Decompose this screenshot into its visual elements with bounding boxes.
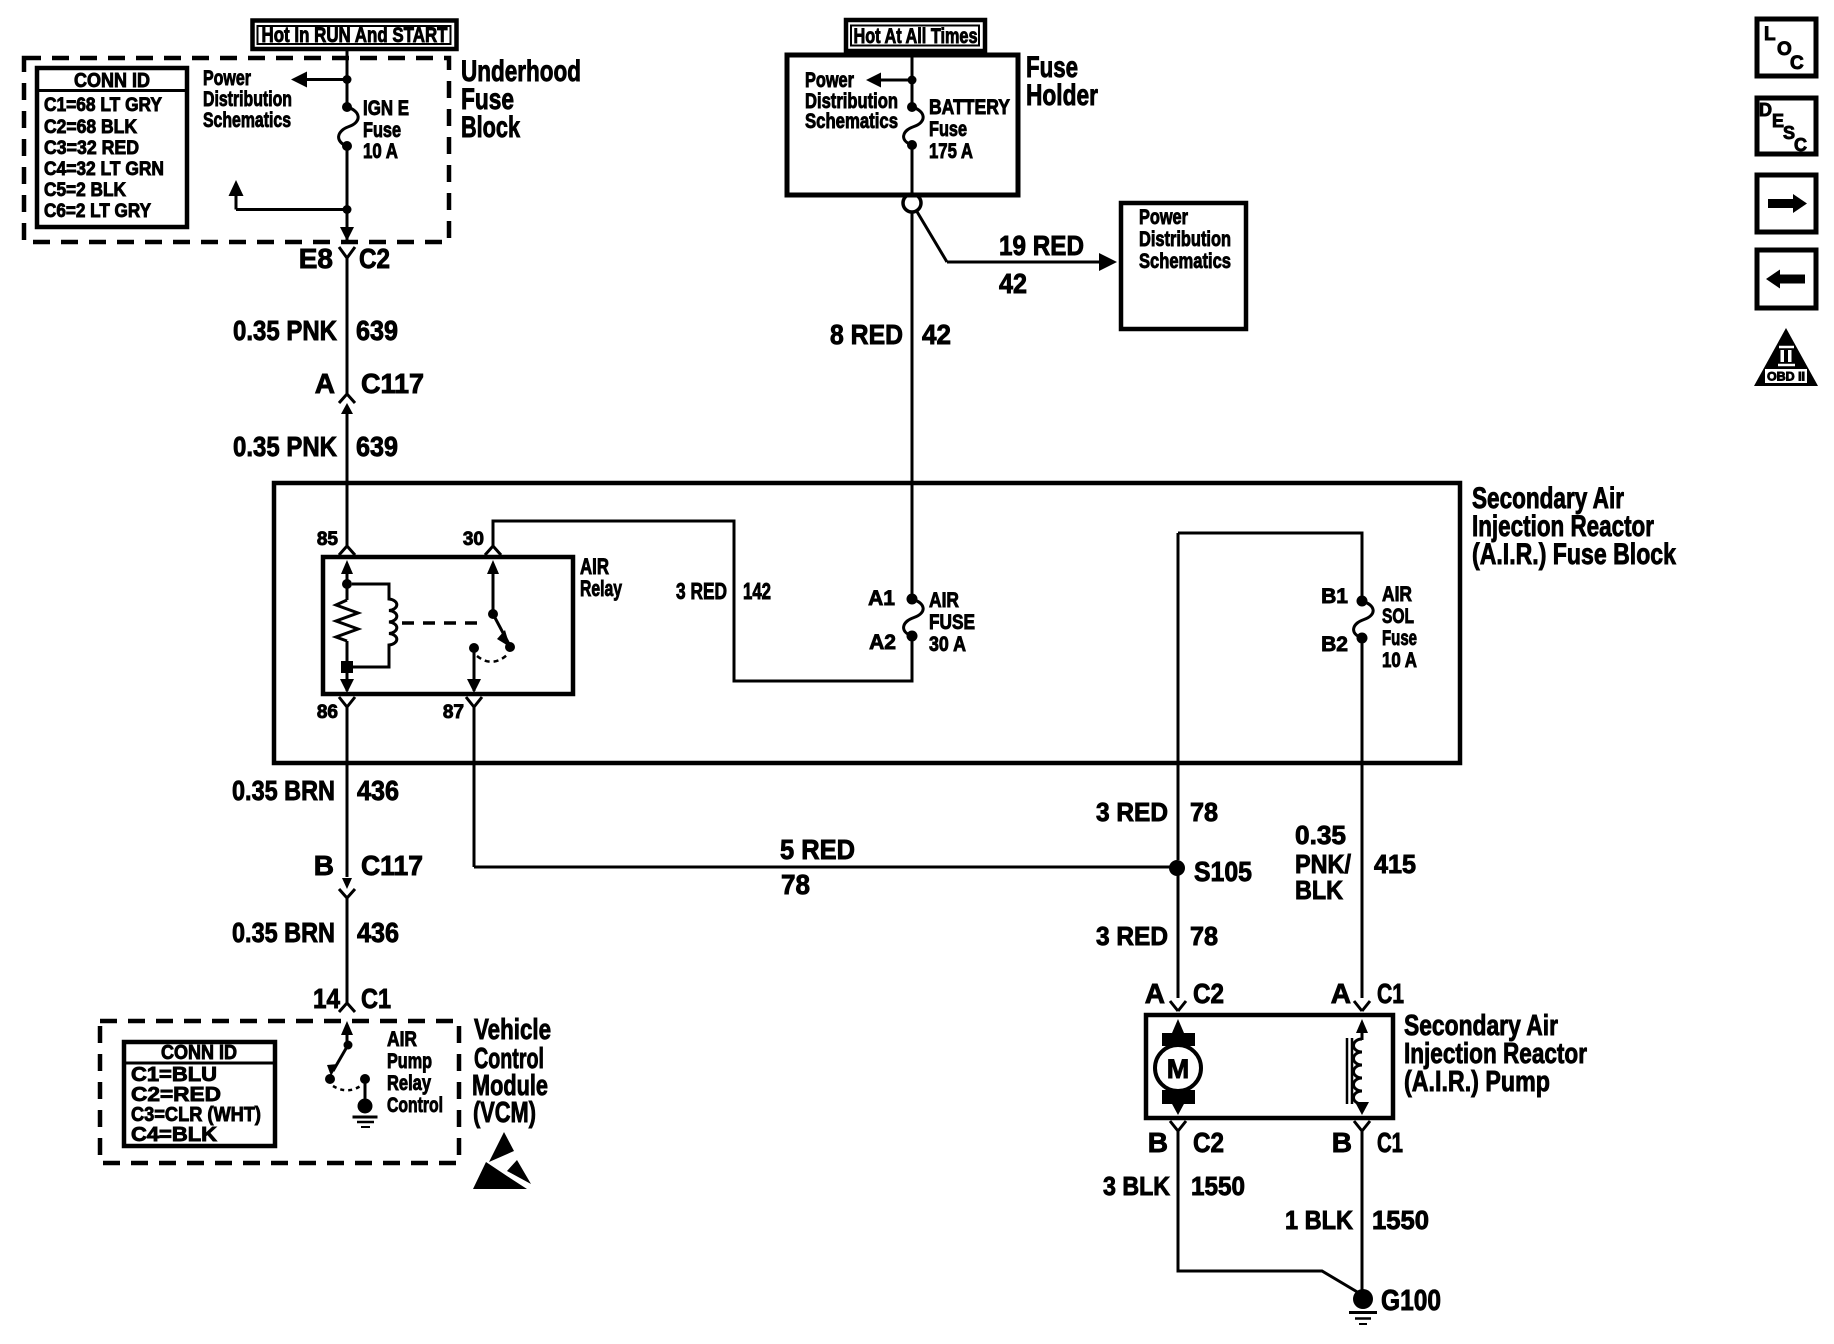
- svg-text:E8: E8: [299, 243, 333, 274]
- svg-text:D: D: [1759, 100, 1772, 120]
- svg-text:19 RED: 19 RED: [999, 230, 1084, 261]
- svg-text:Relay: Relay: [580, 576, 623, 601]
- svg-text:CONN ID: CONN ID: [161, 1042, 237, 1064]
- svg-text:Power: Power: [1139, 206, 1188, 229]
- svg-text:C3=32 RED: C3=32 RED: [44, 138, 139, 159]
- svg-text:10 A: 10 A: [363, 140, 398, 163]
- svg-text:Control: Control: [387, 1094, 443, 1117]
- svg-text:BATTERY: BATTERY: [929, 96, 1010, 119]
- svg-text:78: 78: [1190, 921, 1218, 951]
- svg-text:C6=2 LT GRY: C6=2 LT GRY: [44, 201, 151, 222]
- svg-text:C3=CLR (WHT): C3=CLR (WHT): [131, 1104, 261, 1126]
- svg-text:CONN ID: CONN ID: [74, 70, 150, 92]
- svg-text:8 RED: 8 RED: [830, 319, 903, 350]
- svg-text:1 BLK: 1 BLK: [1285, 1205, 1353, 1235]
- svg-text:78: 78: [781, 869, 810, 900]
- svg-text:C5=2 BLK: C5=2 BLK: [44, 180, 126, 201]
- svg-text:OBD II: OBD II: [1767, 370, 1805, 384]
- svg-text:C2=RED: C2=RED: [131, 1084, 221, 1106]
- svg-text:G100: G100: [1381, 1285, 1441, 1317]
- svg-text:3 RED: 3 RED: [676, 578, 727, 604]
- svg-text:C1: C1: [361, 983, 391, 1014]
- svg-text:(A.I.R.) Fuse Block: (A.I.R.) Fuse Block: [1472, 538, 1676, 571]
- svg-text:C1=68 LT GRY: C1=68 LT GRY: [44, 95, 162, 116]
- svg-text:A: A: [1331, 978, 1351, 1009]
- svg-text:Schematics: Schematics: [805, 110, 898, 133]
- svg-text:C4=BLK: C4=BLK: [131, 1124, 218, 1146]
- svg-text:42: 42: [922, 319, 951, 350]
- svg-text:0.35 PNK: 0.35 PNK: [233, 315, 337, 346]
- svg-text:3 RED: 3 RED: [1096, 797, 1168, 827]
- svg-text:A2: A2: [869, 631, 896, 654]
- svg-text:1550: 1550: [1372, 1205, 1429, 1235]
- svg-text:Hot At All Times: Hot At All Times: [854, 25, 978, 48]
- svg-text:C1: C1: [1377, 1127, 1403, 1158]
- svg-text:42: 42: [999, 268, 1027, 299]
- svg-text:0.35 PNK: 0.35 PNK: [233, 431, 337, 462]
- svg-text:Relay: Relay: [387, 1072, 431, 1095]
- svg-text:B1: B1: [1321, 585, 1348, 608]
- svg-text:B: B: [314, 850, 334, 881]
- svg-text:436: 436: [357, 917, 399, 948]
- svg-text:0.35 BRN: 0.35 BRN: [232, 775, 335, 806]
- svg-text:C2: C2: [1193, 1127, 1224, 1158]
- svg-text:3 BLK: 3 BLK: [1103, 1171, 1170, 1201]
- svg-text:436: 436: [357, 775, 399, 806]
- svg-text:C: C: [1794, 135, 1807, 155]
- svg-text:AIR: AIR: [1382, 583, 1412, 606]
- svg-text:Power: Power: [203, 67, 251, 90]
- svg-text:Holder: Holder: [1026, 79, 1098, 112]
- svg-text:(VCM): (VCM): [473, 1097, 536, 1129]
- svg-text:3 RED: 3 RED: [1096, 921, 1168, 951]
- svg-text:C1=BLU: C1=BLU: [131, 1064, 217, 1086]
- svg-text:C2=68 BLK: C2=68 BLK: [44, 117, 137, 138]
- svg-text:B2: B2: [1321, 633, 1348, 656]
- svg-text:175 A: 175 A: [929, 140, 973, 163]
- svg-text:Block: Block: [461, 111, 520, 144]
- svg-text:C: C: [1790, 53, 1804, 74]
- svg-text:C117: C117: [361, 368, 424, 399]
- svg-text:A: A: [1145, 978, 1165, 1009]
- svg-text:Distribution: Distribution: [1139, 228, 1231, 251]
- svg-text:87: 87: [443, 702, 464, 723]
- svg-text:C2: C2: [1193, 978, 1224, 1009]
- svg-text:M: M: [1167, 1054, 1190, 1084]
- svg-text:AIR: AIR: [929, 589, 959, 612]
- svg-text:30 A: 30 A: [929, 633, 966, 656]
- svg-text:10 A: 10 A: [1382, 649, 1417, 672]
- svg-text:L: L: [1764, 24, 1776, 45]
- svg-text:30: 30: [463, 529, 484, 550]
- svg-text:SOL: SOL: [1382, 605, 1414, 628]
- svg-text:(A.I.R.) Pump: (A.I.R.) Pump: [1404, 1066, 1550, 1098]
- svg-text:5 RED: 5 RED: [780, 834, 855, 865]
- svg-text:85: 85: [317, 529, 339, 550]
- svg-text:FUSE: FUSE: [929, 611, 975, 634]
- svg-text:B: B: [1148, 1127, 1168, 1158]
- svg-text:639: 639: [356, 315, 398, 346]
- svg-text:14: 14: [313, 983, 340, 1014]
- svg-text:639: 639: [356, 431, 398, 462]
- svg-text:Vehicle: Vehicle: [474, 1014, 551, 1046]
- svg-text:Distribution: Distribution: [203, 88, 292, 111]
- svg-text:C1: C1: [1377, 978, 1404, 1009]
- svg-text:Pump: Pump: [387, 1050, 432, 1073]
- svg-text:Power: Power: [805, 69, 854, 92]
- svg-text:C117: C117: [361, 850, 423, 881]
- svg-text:BLK: BLK: [1295, 875, 1343, 905]
- svg-text:0.35: 0.35: [1295, 820, 1346, 850]
- svg-text:Schematics: Schematics: [203, 109, 291, 132]
- svg-text:Schematics: Schematics: [1139, 250, 1231, 273]
- svg-text:Fuse: Fuse: [929, 118, 967, 141]
- svg-text:A1: A1: [868, 587, 895, 610]
- svg-text:Hot In RUN And START: Hot In RUN And START: [262, 24, 448, 47]
- svg-text:Fuse: Fuse: [363, 119, 401, 142]
- svg-text:IGN E: IGN E: [363, 97, 409, 120]
- svg-text:Fuse: Fuse: [1382, 627, 1417, 650]
- svg-text:0.35 BRN: 0.35 BRN: [232, 917, 335, 948]
- svg-text:A: A: [315, 368, 335, 399]
- svg-text:C4=32 LT GRN: C4=32 LT GRN: [44, 159, 164, 180]
- svg-text:86: 86: [317, 702, 338, 723]
- svg-text:415: 415: [1374, 849, 1416, 879]
- svg-text:B: B: [1332, 1127, 1352, 1158]
- svg-text:S105: S105: [1194, 856, 1252, 887]
- svg-text:78: 78: [1190, 797, 1218, 827]
- svg-text:142: 142: [743, 578, 771, 604]
- svg-text:C2: C2: [359, 243, 390, 274]
- svg-text:AIR: AIR: [387, 1028, 417, 1051]
- svg-text:1550: 1550: [1191, 1171, 1245, 1201]
